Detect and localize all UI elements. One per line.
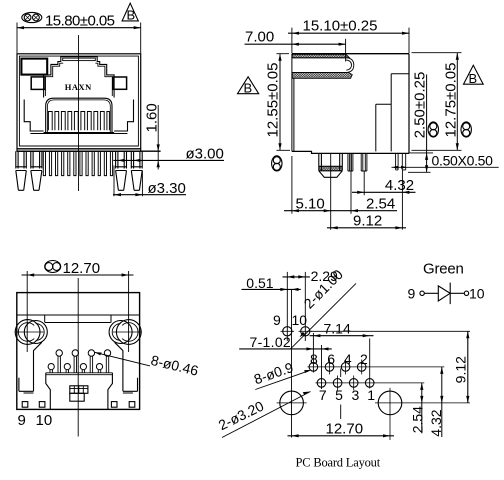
right latch cutout xyxy=(114,100,133,132)
svg-text:4: 4 xyxy=(344,351,352,367)
svg-text:4.32: 4.32 xyxy=(385,177,414,194)
socket top tab inner xyxy=(63,58,96,61)
svg-text:9.12: 9.12 xyxy=(353,212,382,229)
shield leg pins wide P3 xyxy=(116,151,127,190)
svg-text:0.51: 0.51 xyxy=(246,275,273,291)
bottom view pin short 2 xyxy=(66,370,68,373)
svg-text:B: B xyxy=(127,8,136,23)
datum triangle B front xyxy=(122,3,138,21)
hole 9 xyxy=(283,327,292,336)
dim 0.50X0.50 xyxy=(392,166,499,168)
bottom view pin short 4 xyxy=(98,370,100,373)
svg-text:ø3.30: ø3.30 xyxy=(148,180,186,197)
extension holes row right xyxy=(311,330,470,332)
dim 4.32 xyxy=(364,170,402,230)
svg-text:0.50X0.50: 0.50X0.50 xyxy=(432,153,494,169)
svg-text:7-1.02: 7-1.02 xyxy=(250,334,292,350)
symbol oval bottom view xyxy=(45,261,61,273)
svg-text:15.10±0.25: 15.10±0.25 xyxy=(303,17,378,34)
svg-text:12.55±0.05: 12.55±0.05 xyxy=(265,63,282,138)
LED terminal circle right xyxy=(464,291,468,295)
top row line xyxy=(308,366,445,368)
symbol oval8 right xyxy=(461,122,471,137)
symbol oval8 left xyxy=(272,156,282,171)
dim 12.70 pcb xyxy=(288,435,395,437)
body right edge xyxy=(408,54,410,154)
plug opening inner line xyxy=(47,100,110,132)
svg-text:9: 9 xyxy=(273,312,281,328)
bottom view pin tall 3 xyxy=(90,356,92,373)
dim 1.60 xyxy=(157,105,159,170)
svg-text:12.70: 12.70 xyxy=(326,421,364,438)
dim 7.00 xyxy=(245,43,346,45)
foot square 1 xyxy=(22,402,28,408)
extension hole1 xyxy=(369,339,371,389)
symbol oval front top xyxy=(22,12,42,22)
LED cathode bar xyxy=(449,283,451,305)
svg-text:2: 2 xyxy=(360,351,368,367)
dim 2.50±0.25 xyxy=(426,74,428,172)
pin B side xyxy=(361,153,367,171)
pin hole 5 xyxy=(333,379,342,388)
socket stepped profile xyxy=(44,57,115,98)
node hole9 extension xyxy=(286,272,288,341)
svg-text:12.75±0.05: 12.75±0.05 xyxy=(443,63,460,138)
bottom row line xyxy=(316,382,425,384)
bottom view pin 9 short xyxy=(50,370,52,373)
svg-text:7.14: 7.14 xyxy=(324,320,351,336)
left screw boss xyxy=(15,320,40,345)
pin hole 8 xyxy=(309,363,318,372)
left latch cutout xyxy=(24,100,43,132)
shield strip xyxy=(292,58,347,73)
dim 12.75±0.05 xyxy=(456,53,458,151)
pin hole 1 xyxy=(365,379,374,388)
pin A side xyxy=(348,153,353,171)
svg-text:PC Board Layout: PC Board Layout xyxy=(296,456,381,470)
LED terminal circle left xyxy=(420,291,424,295)
leader 2-o1.00 xyxy=(291,283,356,348)
shield hatch band 2 xyxy=(292,73,352,79)
thin shield legs xyxy=(43,151,112,175)
datum triangle B side left xyxy=(238,77,259,94)
dim 9.12 xyxy=(327,227,406,229)
svg-text:9: 9 xyxy=(408,286,416,302)
svg-text:12.70: 12.70 xyxy=(63,260,101,277)
extension hole8 xyxy=(312,333,314,373)
latch pin side xyxy=(319,153,343,177)
svg-text:1: 1 xyxy=(367,387,375,403)
svg-text:7.00: 7.00 xyxy=(245,29,274,46)
leader 2-o3.20 xyxy=(222,392,311,438)
svg-text:5: 5 xyxy=(335,387,343,403)
inner step line xyxy=(45,315,111,323)
pin hole 4 xyxy=(341,363,350,372)
big hole 2 xyxy=(378,391,402,415)
leader 8-o0.46 xyxy=(95,352,150,366)
dim 5.10 xyxy=(291,156,293,214)
svg-text:10: 10 xyxy=(36,412,53,429)
svg-text:10: 10 xyxy=(292,312,308,328)
svg-text:2.54: 2.54 xyxy=(409,406,425,433)
pin hole 6 xyxy=(325,363,334,372)
bottom view pin tall 2 xyxy=(74,356,76,373)
bottom view pin tall 4 xyxy=(106,356,108,373)
pin cavity outline xyxy=(46,373,113,410)
svg-text:15.80±0.05: 15.80±0.05 xyxy=(45,13,115,30)
socket bottom lines xyxy=(30,133,127,134)
svg-text:6: 6 xyxy=(327,351,335,367)
shield hook xyxy=(346,58,354,73)
inner back wall xyxy=(391,74,409,152)
pin D side xyxy=(402,153,405,170)
dim 2.54 xyxy=(331,154,351,230)
foot square 4 xyxy=(129,402,135,408)
extension hole7 xyxy=(321,345,323,389)
LED diode triangle xyxy=(438,286,450,301)
pin hole 3 xyxy=(349,379,358,388)
svg-text:10: 10 xyxy=(469,286,485,302)
pin hole 7 xyxy=(317,379,326,388)
body top edge xyxy=(292,53,409,55)
pin C side xyxy=(396,153,399,170)
big hole1 centerline xyxy=(291,289,293,437)
symbol oval8 mid xyxy=(428,122,438,137)
socket profile inner edge xyxy=(45,63,112,96)
body inner wall xyxy=(19,56,138,146)
inner step xyxy=(376,104,391,151)
bottom view pin tall 1 xyxy=(58,356,60,373)
right window xyxy=(113,77,127,89)
pin hole 2 xyxy=(357,363,366,372)
contact comb teeth xyxy=(48,112,109,131)
dim o3.30 xyxy=(114,166,142,197)
dim 9.12 vertical xyxy=(467,331,469,403)
dim 4.32 vertical xyxy=(441,367,443,437)
svg-text:7: 7 xyxy=(319,387,327,403)
shield leg pins wide P4 xyxy=(131,151,142,190)
plug opening xyxy=(46,98,112,132)
big hole 1 xyxy=(280,391,304,415)
LED wire right xyxy=(450,292,464,294)
latch block xyxy=(70,386,88,394)
body left edge xyxy=(292,54,294,152)
dim 12.55±0.05 xyxy=(279,54,281,151)
leader 8-o0.9 xyxy=(255,371,309,390)
LED wire left xyxy=(424,292,438,294)
shield leg pins wide P2 xyxy=(31,151,42,190)
body outline bottom view xyxy=(17,293,140,410)
footprint centerline marks xyxy=(340,369,342,420)
inner top line xyxy=(17,314,140,316)
svg-text:Green: Green xyxy=(423,261,464,278)
dim 15.10±0.25 xyxy=(288,32,410,34)
svg-text:4.32: 4.32 xyxy=(428,409,444,436)
wire centerline front view xyxy=(78,35,80,191)
shield hatch band top xyxy=(292,54,349,57)
LED window xyxy=(21,59,47,75)
svg-text:B: B xyxy=(469,71,478,86)
svg-text:1.60: 1.60 xyxy=(144,103,161,132)
shield leg pins wide P1 xyxy=(16,151,26,190)
body bottom xyxy=(292,151,409,153)
svg-text:2.54: 2.54 xyxy=(366,195,395,212)
left window xyxy=(31,77,45,90)
dim 7.14 xyxy=(310,335,374,337)
svg-text:3: 3 xyxy=(352,387,360,403)
svg-text:9: 9 xyxy=(18,412,26,429)
foot square 3 xyxy=(111,402,117,408)
svg-text:B: B xyxy=(244,80,253,95)
svg-text:HAXN: HAXN xyxy=(65,82,92,92)
svg-text:2.50±0.25: 2.50±0.25 xyxy=(412,72,429,139)
dim 15.80±0.05 line xyxy=(17,27,141,29)
dim 2.29 xyxy=(283,276,310,278)
node hole10 extension xyxy=(304,272,306,341)
body bottom lines xyxy=(17,148,141,150)
right skirt wall xyxy=(115,342,138,393)
left skirt wall xyxy=(19,342,42,393)
svg-text:ø3.00: ø3.00 xyxy=(186,146,224,163)
centerline bottom view xyxy=(77,278,79,437)
foot square 2 xyxy=(39,402,45,408)
svg-text:5.10: 5.10 xyxy=(296,195,325,212)
right screw boss xyxy=(116,320,141,345)
svg-text:8: 8 xyxy=(310,351,318,367)
svg-text:9.12: 9.12 xyxy=(453,356,469,383)
hole 10 xyxy=(301,327,310,336)
body outline front xyxy=(17,54,141,151)
datum triangle B side right xyxy=(464,65,484,84)
dim 2.54 vertical xyxy=(421,383,423,433)
dim leader o3.00 xyxy=(113,159,224,161)
bottom view pin short 3 xyxy=(82,370,84,373)
